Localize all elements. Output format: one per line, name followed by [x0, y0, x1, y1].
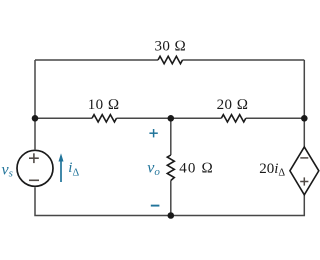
svg-text:40 Ω: 40 Ω: [179, 161, 214, 177]
svg-text:20 Ω: 20 Ω: [217, 97, 249, 113]
svg-text:10 Ω: 10 Ω: [88, 97, 120, 113]
svg-text:30 Ω: 30 Ω: [154, 39, 186, 55]
